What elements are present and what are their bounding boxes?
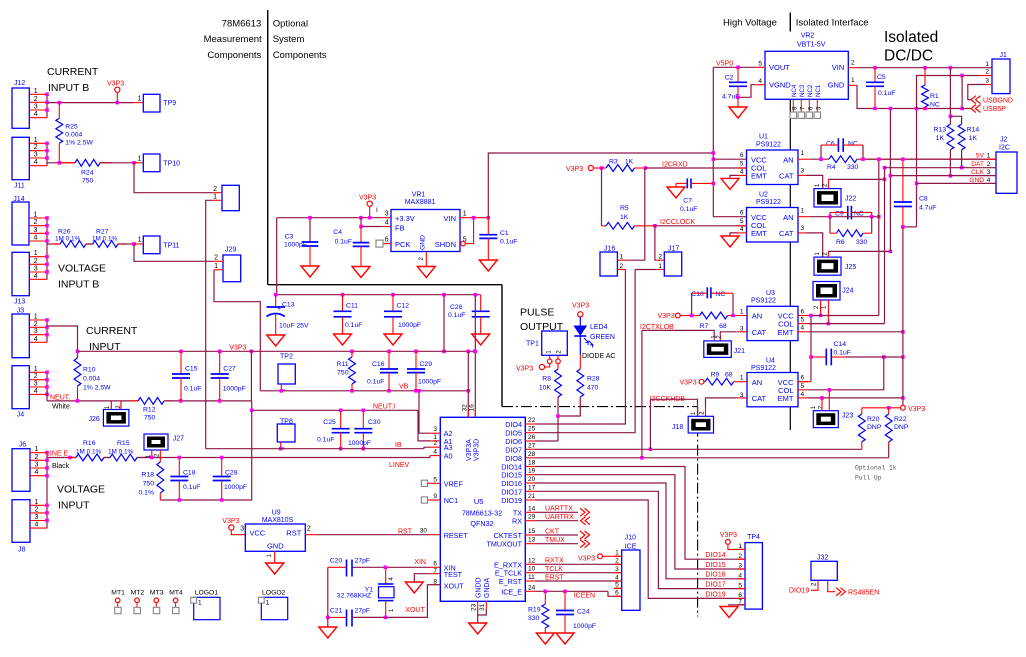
svg-text:J27: J27 (173, 435, 184, 442)
svg-text:6: 6 (385, 237, 389, 244)
svg-text:V3P3: V3P3 (572, 302, 589, 309)
svg-text:MT2: MT2 (131, 590, 145, 597)
svg-text:VB: VB (399, 384, 409, 391)
svg-text:DNP: DNP (894, 424, 909, 431)
svg-text:U3: U3 (766, 290, 775, 297)
svg-text:5: 5 (433, 476, 437, 483)
svg-text:29: 29 (528, 514, 536, 521)
svg-text:VREF: VREF (444, 479, 464, 488)
wire DIO16 to TP4 pin4 (535, 483, 745, 579)
svg-text:MT4: MT4 (169, 590, 183, 597)
svg-text:V3P3D: V3P3D (473, 439, 480, 461)
svg-text:1000pF: 1000pF (284, 242, 307, 249)
svg-text:J2: J2 (1000, 136, 1008, 143)
svg-text:NC: NC (930, 102, 940, 109)
svg-text:0.004: 0.004 (83, 376, 100, 383)
wire V3P3A pin stub (467, 351, 469, 417)
svg-text:1: 1 (34, 314, 38, 321)
wire DIO7 I2CCKHDB row (535, 448, 862, 450)
svg-text:TP4: TP4 (747, 534, 760, 541)
resistor R20 DNP (861, 408, 863, 414)
svg-text:VOLTAGE: VOLTAGE (58, 263, 106, 275)
svg-text:5: 5 (615, 582, 619, 589)
led LED4 GREEN (574, 326, 586, 335)
wire J29 pin1 to TP2 (214, 270, 260, 391)
svg-text:+3.3V: +3.3V (395, 214, 415, 223)
ground C4 (352, 267, 370, 278)
svg-text:Components: Components (207, 50, 261, 61)
wire LINE row to R16 (47, 457, 76, 459)
net label UARTRX (535, 520, 578, 522)
wire DIO5 to J17 (535, 270, 635, 433)
ground C11 (334, 334, 352, 345)
wire DIO4 to J16 (535, 270, 625, 425)
svg-text:C8: C8 (919, 196, 928, 203)
svg-text:C25: C25 (323, 419, 336, 426)
resistor R28 (579, 336, 581, 355)
jumper J22 (814, 189, 841, 207)
wire J11 pin tie (46, 143, 48, 165)
svg-text:PCK: PCK (395, 240, 410, 249)
wire 3.3V rail corner to bypass bus (277, 218, 481, 295)
svg-text:RS485EN: RS485EN (848, 590, 879, 597)
wire U3 COL row (808, 323, 885, 325)
svg-text:4: 4 (758, 78, 762, 85)
wire U3 EMT row (808, 331, 903, 333)
wire U4 COL row (808, 357, 884, 390)
capacitor C27 (219, 351, 221, 374)
pin stubs U5 right DIO (525, 423, 535, 425)
svg-text:NC: NC (848, 140, 858, 147)
svg-text:2: 2 (433, 440, 437, 447)
svg-text:2: 2 (851, 59, 855, 66)
svg-text:1: 1 (34, 212, 38, 219)
svg-text:J23: J23 (842, 413, 853, 420)
svg-text:7: 7 (433, 568, 437, 575)
svg-text:INPUT B: INPUT B (58, 279, 99, 291)
svg-text:XIN: XIN (414, 559, 426, 566)
svg-text:3: 3 (34, 104, 38, 111)
svg-text:11: 11 (528, 574, 535, 581)
svg-text:J8: J8 (18, 546, 26, 553)
svg-text:1: 1 (620, 254, 624, 261)
svg-text:2: 2 (213, 186, 217, 193)
ground U2 EMT (730, 233, 738, 236)
wire XIN row (352, 566, 430, 568)
svg-text:CAT: CAT (752, 394, 767, 403)
svg-text:VOUT: VOUT (769, 63, 790, 72)
svg-text:4: 4 (801, 391, 805, 398)
svg-text:4: 4 (615, 574, 619, 581)
wire C8 bottom to GND rail (903, 226, 917, 228)
wire CLK vertical (889, 109, 891, 252)
svg-text:0.1uF: 0.1uF (448, 312, 465, 319)
svg-text:C13: C13 (282, 302, 295, 309)
connector J28 unlabeled (222, 185, 239, 210)
pin XIN (430, 566, 440, 568)
svg-text:R11: R11 (337, 361, 349, 368)
ic U5 78M6613-32 QFN32 (440, 417, 525, 601)
svg-text:DIO14: DIO14 (705, 552, 725, 559)
jumper J18 (688, 416, 713, 433)
svg-text:1K: 1K (620, 214, 629, 221)
svg-text:5: 5 (801, 383, 805, 390)
svg-text:1: 1 (138, 237, 142, 244)
svg-text:330: 330 (528, 615, 540, 622)
svg-text:1: 1 (214, 263, 218, 270)
pin TEST (430, 573, 440, 575)
svg-text:3: 3 (35, 462, 39, 469)
svg-text:2: 2 (307, 525, 311, 532)
svg-text:J16: J16 (604, 245, 615, 252)
svg-text:ERST: ERST (545, 574, 564, 581)
svg-text:CURRENT: CURRENT (86, 325, 138, 337)
svg-text:C24: C24 (577, 608, 590, 615)
wire VGND pin to C2 ground (756, 84, 765, 86)
ground VR1 GND pin2 (425, 252, 427, 267)
svg-text:PS9122: PS9122 (756, 199, 781, 206)
svg-text:DIO17: DIO17 (501, 487, 522, 496)
svg-text:0.1uF: 0.1uF (317, 437, 334, 444)
wire VIN up to V5P0 feed (488, 153, 713, 218)
svg-text:J32: J32 (817, 555, 828, 562)
wire U3 VCC row (808, 315, 879, 317)
svg-text:R19: R19 (528, 606, 541, 613)
wire J16 pin1 to I2CRXD (625, 168, 644, 260)
boundary line measurement/optional sections (267, 10, 269, 285)
svg-text:26: 26 (528, 434, 536, 441)
svg-text:V3P3: V3P3 (908, 406, 925, 413)
svg-text:White: White (52, 403, 70, 410)
svg-text:R8: R8 (542, 375, 551, 382)
svg-text:1: 1 (138, 156, 142, 163)
svg-text:J17: J17 (668, 245, 679, 252)
svg-text:1: 1 (213, 194, 217, 201)
svg-text:1: 1 (801, 150, 805, 157)
svg-text:J22: J22 (845, 196, 856, 203)
wire LINEV to U5 A0 (429, 456, 431, 458)
net label CKT (535, 534, 578, 536)
svg-text:C14: C14 (834, 341, 847, 348)
svg-text:4: 4 (433, 449, 437, 456)
wire current input B to TP9 (47, 102, 133, 104)
svg-text:CAT: CAT (779, 229, 794, 238)
svg-text:Isolated: Isolated (884, 29, 938, 46)
svg-text:1: 1 (463, 211, 467, 218)
svg-text:TMUX: TMUX (545, 537, 565, 544)
svg-text:78M6613: 78M6613 (222, 18, 262, 29)
svg-text:78M6613-32: 78M6613-32 (462, 509, 502, 518)
svg-text:750: 750 (337, 370, 349, 377)
svg-text:RX: RX (512, 517, 522, 526)
svg-text:C20: C20 (330, 558, 343, 565)
jumper J24 (813, 282, 840, 301)
svg-text:U5: U5 (474, 497, 484, 506)
svg-text:1: 1 (35, 446, 39, 453)
svg-text:R7: R7 (700, 323, 709, 330)
svg-text:QFN32: QFN32 (470, 519, 493, 528)
svg-text:4.7uF: 4.7uF (919, 204, 936, 211)
resistor R25 (58, 103, 60, 119)
svg-text:2: 2 (35, 454, 39, 461)
svg-text:EMT: EMT (778, 394, 794, 403)
wire J3 to R10 shunt (47, 326, 78, 358)
wire TP11 net to J29 pin2 (134, 244, 214, 261)
svg-text:17: 17 (528, 484, 536, 491)
capacitor C29 (415, 351, 417, 369)
svg-text:Pull Up: Pull Up (855, 475, 882, 482)
svg-text:J1: J1 (1000, 52, 1008, 59)
testpoint TP11 (133, 243, 143, 245)
wire C20 C21 ground leg (327, 567, 329, 617)
wire J17 pin2 to I2CCLOCK (655, 226, 657, 260)
capacitor C11 (342, 295, 344, 312)
svg-text:C29: C29 (420, 361, 433, 368)
svg-text:NC1: NC1 (444, 496, 458, 505)
wire VIN node (460, 217, 489, 219)
wire I2CCKHDB row to J18 pin1 (650, 399, 697, 416)
svg-text:EMT: EMT (751, 172, 767, 181)
svg-text:GND: GND (267, 542, 284, 551)
wire J11 to R24 (47, 162, 75, 164)
svg-text:DIO8: DIO8 (505, 454, 522, 463)
svg-text:6: 6 (801, 375, 805, 382)
svg-text:0.1uF: 0.1uF (680, 206, 697, 213)
resistor R24 (59, 162, 75, 164)
wire XOUT to U5 (385, 585, 440, 618)
svg-text:C26: C26 (450, 304, 463, 311)
pin NC1 unconnected (428, 499, 440, 501)
svg-text:2: 2 (985, 69, 989, 76)
capacitor C13 electrolytic (275, 295, 277, 307)
ground C12 (384, 334, 402, 345)
capacitor C28 (221, 458, 223, 477)
svg-text:NEUT.I: NEUT.I (373, 404, 395, 411)
wire J17 pin1 down (635, 269, 656, 271)
svg-text:NC1: NC1 (815, 84, 822, 97)
svg-text:Isolated Interface: Isolated Interface (796, 18, 869, 29)
svg-text:TMUXOUT: TMUXOUT (486, 540, 522, 549)
svg-text:1: 1 (198, 600, 202, 607)
resistor R19 (544, 591, 546, 604)
svg-text:I2CRXD: I2CRXD (662, 161, 688, 168)
svg-text:1% 2.5W: 1% 2.5W (65, 140, 93, 147)
svg-text:R12: R12 (143, 407, 156, 414)
net label RS485EN (828, 584, 835, 592)
svg-text:R16: R16 (83, 440, 96, 447)
svg-text:4: 4 (740, 168, 744, 175)
svg-text:4: 4 (34, 273, 38, 280)
svg-text:V3P3A: V3P3A (466, 439, 473, 461)
svg-text:750: 750 (82, 178, 94, 185)
svg-text:Black: Black (52, 463, 70, 470)
svg-text:ICE_E: ICE_E (501, 587, 522, 596)
svg-text:DIO4: DIO4 (505, 420, 522, 429)
wire J4 tie NEUT (46, 372, 48, 394)
svg-text:1000pF: 1000pF (223, 386, 246, 393)
svg-text:3: 3 (801, 225, 805, 232)
svg-text:4: 4 (35, 469, 39, 476)
svg-text:3: 3 (985, 78, 989, 85)
svg-text:R10: R10 (83, 367, 96, 374)
net label UARTTX (535, 511, 578, 513)
svg-text:1000pF: 1000pF (573, 623, 596, 630)
svg-text:1: 1 (985, 61, 989, 68)
svg-text:68: 68 (719, 323, 727, 330)
resistor R12 (129, 400, 138, 402)
svg-text:DAT: DAT (971, 161, 984, 168)
svg-text:19: 19 (528, 468, 536, 475)
wire NEUT row (46, 390, 48, 401)
svg-text:2: 2 (658, 254, 662, 261)
svg-text:1M 0.1%: 1M 0.1% (108, 448, 134, 455)
svg-text:1000pF: 1000pF (398, 322, 421, 329)
svg-text:Measurement: Measurement (204, 34, 262, 45)
svg-text:CLK: CLK (971, 169, 984, 176)
svg-text:27pF: 27pF (355, 558, 371, 565)
svg-text:Components: Components (273, 50, 327, 61)
svg-text:330: 330 (847, 164, 859, 171)
svg-text:1K: 1K (936, 135, 945, 142)
wire 5V row to J2 pin1 (986, 158, 996, 160)
svg-text:C11: C11 (346, 303, 358, 310)
svg-text:C4: C4 (333, 229, 342, 236)
svg-text:LOGO1: LOGO1 (195, 590, 219, 597)
resistor R18 (159, 458, 161, 463)
resistor R9 (705, 378, 734, 385)
svg-text:R13: R13 (934, 127, 947, 134)
svg-text:9: 9 (433, 493, 437, 500)
svg-text:2: 2 (35, 506, 39, 513)
svg-text:R6: R6 (836, 239, 845, 246)
svg-text:12: 12 (528, 557, 536, 564)
svg-text:6: 6 (433, 560, 437, 567)
svg-text:ICEEN: ICEEN (574, 593, 595, 600)
svg-text:1000pF: 1000pF (348, 440, 371, 447)
jumper J25 (814, 257, 841, 275)
svg-text:4: 4 (385, 220, 389, 227)
resistor R10 (74, 358, 81, 386)
svg-text:DIODE AC: DIODE AC (582, 353, 615, 360)
svg-text:0.1uF: 0.1uF (367, 379, 384, 386)
wire J28 pin1 to IB rail (206, 200, 214, 448)
ground TP4 pin7 (729, 605, 745, 607)
capacitor C1 (487, 218, 489, 235)
capacitor C3 (309, 218, 311, 242)
svg-text:5: 5 (801, 317, 805, 324)
svg-text:SHDN: SHDN (435, 240, 456, 249)
svg-text:GND: GND (969, 177, 984, 184)
svg-text:PS9122: PS9122 (756, 141, 781, 148)
svg-text:1: 1 (801, 208, 805, 215)
svg-text:4: 4 (801, 325, 805, 332)
svg-text:C1: C1 (500, 230, 509, 237)
svg-text:15: 15 (528, 528, 536, 535)
svg-text:J26: J26 (89, 416, 100, 423)
svg-text:TP1: TP1 (526, 340, 539, 347)
svg-text:R20: R20 (867, 416, 880, 423)
wire E_TCLK to J10 pin3 (535, 572, 622, 574)
svg-text:4: 4 (34, 235, 38, 242)
pin SHDN to VIN (461, 241, 466, 246)
ground C2 (729, 107, 747, 118)
svg-text:C27: C27 (223, 366, 236, 373)
svg-text:R24: R24 (81, 170, 94, 177)
svg-text:1K: 1K (625, 158, 634, 165)
svg-text:22: 22 (528, 417, 536, 424)
wire FB to 3.3V (361, 218, 381, 227)
svg-text:RXTX: RXTX (545, 558, 564, 565)
svg-text:MAX810S: MAX810S (262, 517, 294, 524)
wire J1 pin2 row (917, 76, 980, 109)
boundary line isolated interface (789, 13, 791, 32)
svg-text:R1: R1 (930, 93, 939, 100)
svg-text:3: 3 (34, 328, 38, 335)
svg-text:4: 4 (987, 177, 991, 184)
svg-text:V3P3: V3P3 (566, 166, 583, 173)
svg-text:21: 21 (528, 493, 536, 500)
svg-text:1% 2.5W: 1% 2.5W (83, 385, 111, 392)
capacitor C12 (392, 295, 394, 312)
svg-text:27pF: 27pF (355, 608, 371, 615)
wire U4 EMT row (808, 397, 903, 399)
svg-text:2: 2 (34, 219, 38, 226)
svg-text:XOUT: XOUT (444, 581, 465, 590)
svg-text:TP10: TP10 (163, 160, 180, 167)
svg-text:AN: AN (783, 155, 793, 164)
svg-text:CKT: CKT (545, 528, 560, 535)
svg-text:C2: C2 (725, 74, 734, 81)
ground crystal caps (319, 627, 337, 638)
svg-text:2: 2 (615, 558, 619, 565)
wire USB5P to J1 pin2 (961, 76, 963, 109)
wire VIN row to J1 (848, 67, 857, 69)
svg-text:NC3: NC3 (799, 84, 806, 97)
wire J3 tie (46, 320, 48, 342)
svg-text:AN: AN (752, 378, 762, 387)
svg-text:0.1uF: 0.1uF (878, 90, 895, 97)
svg-text:USB5P: USB5P (983, 106, 1006, 113)
svg-text:C6: C6 (826, 140, 835, 147)
svg-text:6: 6 (740, 210, 744, 217)
svg-text:C3: C3 (285, 234, 294, 241)
ground TEST pin (414, 574, 430, 582)
svg-text:DIO17: DIO17 (705, 582, 725, 589)
svg-text:C18: C18 (183, 470, 196, 477)
svg-text:PS9122: PS9122 (751, 365, 776, 372)
svg-text:1K: 1K (969, 135, 978, 142)
svg-text:DC/DC: DC/DC (884, 48, 933, 65)
svg-text:V3P3: V3P3 (680, 379, 697, 386)
wire ICE_E ICEEN row (535, 590, 608, 592)
svg-text:DNP: DNP (867, 424, 882, 431)
svg-text:R5: R5 (620, 205, 629, 212)
svg-text:J6: J6 (19, 442, 27, 449)
capacitor C15 (180, 351, 182, 374)
svg-text:System: System (273, 34, 305, 45)
resistor R16 (70, 457, 76, 459)
svg-text:2: 2 (214, 255, 218, 262)
svg-text:30: 30 (420, 528, 428, 535)
svg-text:LOGO2: LOGO2 (262, 590, 286, 597)
svg-text:330: 330 (856, 239, 868, 246)
svg-text:Optional 1k: Optional 1k (855, 465, 897, 472)
pin RESET (430, 534, 440, 536)
svg-text:14: 14 (528, 505, 536, 512)
wire CLK row to J2 pin3 (890, 175, 996, 177)
svg-text:13: 13 (528, 537, 536, 544)
svg-text:C10: C10 (691, 291, 704, 298)
